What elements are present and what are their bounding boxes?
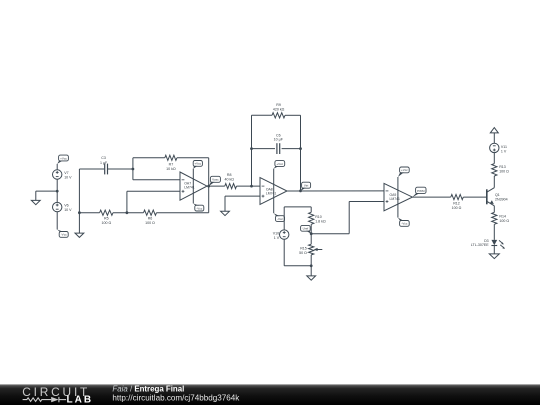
svg-text:Uref: Uref — [303, 227, 309, 231]
svg-text:+Vcc: +Vcc — [401, 168, 408, 172]
svg-text:R8: R8 — [227, 173, 232, 177]
svg-text:-Vcc: -Vcc — [277, 217, 284, 221]
flag Vosc (oscillator output) — [210, 176, 220, 182]
resistor R6 — [144, 210, 157, 215]
node junction sources — [56, 190, 59, 193]
svg-text:100 Ω: 100 Ω — [101, 221, 111, 225]
wire — [56, 179, 58, 202]
svg-text:PWM: PWM — [417, 189, 425, 193]
node junction OA7 output — [207, 185, 210, 188]
voltage source V11 — [490, 143, 499, 152]
LED D3 — [491, 240, 497, 245]
wire — [207, 185, 225, 187]
svg-text:40 kΩ: 40 kΩ — [224, 178, 234, 182]
wire — [133, 179, 180, 181]
wire — [208, 186, 210, 213]
wire — [310, 224, 312, 244]
flag -Vcc OA7 — [195, 205, 204, 211]
svg-text:R7: R7 — [169, 162, 174, 166]
wire — [349, 201, 384, 203]
svg-text:LM741: LM741 — [266, 191, 276, 195]
resistor R8 — [225, 184, 237, 189]
svg-text:1.8 kΩ: 1.8 kΩ — [315, 219, 326, 223]
svg-text:R10: R10 — [315, 215, 322, 219]
svg-text:100 Ω: 100 Ω — [499, 219, 509, 223]
node junction bottom — [310, 264, 313, 267]
wire — [177, 157, 209, 159]
svg-text:100 Ω: 100 Ω — [145, 221, 155, 225]
op-amp OA7 — [180, 172, 207, 200]
wire — [493, 224, 495, 240]
svg-text:100 Ω: 100 Ω — [452, 206, 462, 210]
wire — [157, 212, 209, 214]
ground G4 — [310, 266, 312, 276]
resistor R5 — [100, 210, 113, 215]
wire — [252, 114, 273, 116]
voltage source V10 — [280, 230, 289, 239]
wire — [127, 190, 180, 192]
flag +Vcc (supply top) — [59, 155, 69, 161]
wire — [493, 206, 495, 213]
svg-text:1 V: 1 V — [501, 149, 507, 153]
ground G3 (OA8 + input) — [224, 196, 226, 211]
op-amp OA7 power pin — [192, 169, 194, 204]
node junction OA8 inverting input — [250, 185, 253, 188]
svg-text:V10: V10 — [273, 232, 279, 236]
svg-text:10 V: 10 V — [64, 208, 72, 212]
svg-text:LM741: LM741 — [390, 197, 400, 201]
ground G2 — [78, 213, 80, 233]
svg-text:-Vcc: -Vcc — [196, 206, 203, 210]
svg-text:http://circuitlab.com/cj74bbdg: http://circuitlab.com/cj74bbdg3764k — [112, 393, 240, 402]
wire — [133, 157, 165, 159]
resistor R14 — [492, 212, 497, 224]
svg-text:Faia / Entrega Final: Faia / Entrega Final — [112, 384, 184, 393]
wire — [113, 212, 144, 214]
op-amp OA8 — [260, 178, 287, 205]
flag +Vcc OA9 — [400, 167, 410, 173]
svg-text:R14: R14 — [499, 215, 506, 219]
svg-text:R6: R6 — [148, 216, 153, 220]
svg-text:D3: D3 — [484, 239, 489, 243]
svg-text:10 µF: 10 µF — [274, 137, 284, 141]
svg-text:R15: R15 — [300, 247, 307, 251]
capacitor C3 — [104, 164, 106, 175]
svg-text:420 kΩ: 420 kΩ — [273, 108, 285, 112]
svg-text:-Vcc: -Vcc — [401, 222, 408, 226]
wire — [237, 185, 261, 187]
logo diode doodle — [51, 397, 58, 402]
logo resistor doodle — [23, 398, 52, 402]
wire — [36, 190, 57, 192]
voltage source V7 — [53, 170, 62, 179]
resistor R7 — [165, 155, 177, 160]
svg-text:10 V: 10 V — [64, 175, 72, 179]
wire — [126, 191, 128, 212]
wire — [78, 169, 80, 213]
wire — [284, 265, 311, 267]
wire — [108, 168, 133, 170]
wire — [56, 164, 58, 170]
svg-text:1 µF: 1 µF — [100, 161, 108, 165]
svg-text:50 Ω: 50 Ω — [299, 251, 307, 255]
ground G5 — [489, 254, 499, 259]
wire — [300, 115, 302, 191]
svg-text:R5: R5 — [104, 216, 109, 220]
svg-text:LTL-307EE: LTL-307EE — [471, 243, 490, 247]
flag Vtri (integrator output) — [302, 182, 311, 188]
ground G1 — [35, 191, 37, 200]
capacitor C6 — [276, 143, 278, 154]
wire — [493, 176, 495, 188]
svg-text:+Vcc: +Vcc — [276, 162, 283, 166]
svg-text:10 kΩ: 10 kΩ — [166, 167, 176, 171]
node junction Uref — [310, 232, 313, 235]
flag -Vcc OA8 — [276, 216, 285, 222]
flag Uref — [301, 225, 311, 231]
wire — [348, 202, 350, 234]
wire — [412, 196, 450, 198]
wire — [282, 148, 301, 150]
svg-text:R13: R13 — [499, 165, 506, 169]
svg-text:R9: R9 — [276, 103, 281, 107]
svg-text:Vosc: Vosc — [212, 178, 219, 182]
node junction C6 right — [299, 147, 302, 150]
node junction divider — [126, 211, 129, 214]
wire — [56, 212, 58, 230]
op-amp OA9 power pin — [397, 177, 399, 218]
wire — [310, 255, 312, 266]
op-amp OA9 — [384, 183, 412, 210]
svg-text:LAB: LAB — [67, 395, 94, 405]
svg-text:C3: C3 — [101, 156, 106, 160]
svg-text:V7: V7 — [64, 171, 68, 175]
wire — [225, 195, 260, 197]
svg-text:1 V: 1 V — [274, 236, 280, 240]
svg-text:+Vcc: +Vcc — [60, 156, 67, 160]
svg-text:100 Ω: 100 Ω — [499, 169, 509, 173]
flag PWM (comparator output) — [416, 187, 426, 193]
resistor R13 — [492, 164, 497, 176]
wire — [284, 206, 311, 208]
wire — [493, 133, 495, 143]
node junction C3/R7 — [132, 168, 135, 171]
wire — [208, 158, 210, 186]
wire — [252, 148, 276, 150]
resistor R9 — [272, 113, 285, 118]
svg-text:V11: V11 — [501, 145, 507, 149]
node junction OA8 output — [299, 190, 302, 193]
flag +Vcc OA8 — [275, 161, 285, 167]
svg-text:-Vcc: -Vcc — [61, 233, 68, 237]
svg-text:+Vcc: +Vcc — [194, 162, 201, 166]
node junction C6 left — [250, 147, 253, 150]
wire — [287, 190, 384, 192]
svg-text:Vtri: Vtri — [304, 184, 309, 188]
svg-text:V6: V6 — [64, 204, 68, 208]
power flag +V top — [490, 128, 498, 133]
wire — [311, 233, 349, 235]
svg-text:2N3904: 2N3904 — [495, 197, 508, 201]
wire — [251, 115, 253, 186]
potentiometer R15 — [309, 244, 314, 255]
resistor R12 — [451, 195, 464, 200]
flag +Vcc OA7 — [193, 161, 202, 167]
voltage source V6 — [53, 202, 62, 211]
transistor Q1 2N3904 — [486, 189, 488, 204]
wire — [493, 246, 495, 254]
wire — [283, 207, 285, 230]
wire — [283, 239, 285, 265]
wire — [285, 114, 301, 116]
wire — [493, 153, 495, 164]
wire — [79, 168, 104, 170]
op-amp OA8 power pin — [273, 169, 275, 214]
svg-text:R12: R12 — [453, 202, 460, 206]
node junction — [78, 211, 81, 214]
wire — [463, 196, 487, 198]
wire — [132, 158, 134, 180]
flag -Vcc (supply bottom) — [59, 232, 68, 238]
flag -Vcc OA9 — [400, 221, 410, 227]
wire — [310, 207, 312, 212]
wire — [79, 212, 99, 214]
resistor R10 — [309, 212, 314, 224]
